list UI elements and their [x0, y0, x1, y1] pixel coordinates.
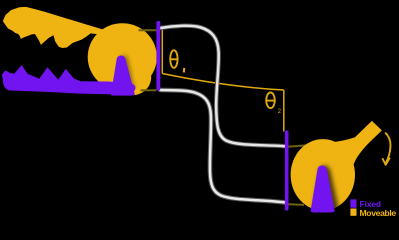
legend swatch moveable (yellow)	[350, 209, 356, 216]
cable B shadow stub (left of bar B1, over arm)	[141, 89, 157, 91]
legend swatch fixed (purple)	[350, 199, 356, 207]
cone pointer 2 (fixed, purple)	[311, 165, 335, 212]
cone 1 drop shadow on disc 1	[116, 55, 136, 96]
crank disc 2 (moveable, yellow)	[291, 139, 355, 210]
angle guide vertical line 1	[161, 28, 163, 74]
wire cable B (lower S-cable between rails)	[160, 90, 284, 202]
crank arm 1 stub (moveable, yellow, pointing down-right)	[126, 72, 151, 95]
label theta1	[170, 50, 179, 68]
label theta2	[266, 93, 275, 109]
upper jaw (moveable, yellow) with teeth	[3, 7, 106, 48]
cone 2 drop shadow on disc 2	[313, 165, 341, 214]
wire cable B shadow stub (right of bar B2)	[289, 203, 305, 206]
angle guide slanted line theta1-theta2	[162, 74, 283, 91]
cone pointer 1 (fixed, purple)	[111, 56, 135, 96]
rail bar B2 (fixed, purple vertical bar)	[285, 131, 289, 211]
svg-text:Moveable: Moveable	[360, 208, 397, 218]
rail bar B1 (fixed, purple vertical bar)	[156, 21, 160, 91]
lower jaw (fixed, purple) with teeth	[2, 65, 136, 94]
crank disc 1 (moveable, yellow)	[88, 23, 157, 91]
label theta1 subscript 1	[183, 68, 185, 72]
angle guide vertical line 2	[283, 90, 285, 132]
rotation arrow	[385, 133, 390, 164]
cable A shadow stub (left of bar B1, over gap)	[139, 29, 157, 31]
wire cable A (upper S-cable between rails)	[160, 26, 284, 146]
wire cable A shadow stub (right of bar B2)	[289, 145, 307, 146]
crank arm 2 (moveable, yellow, blended into disc)	[333, 121, 382, 174]
